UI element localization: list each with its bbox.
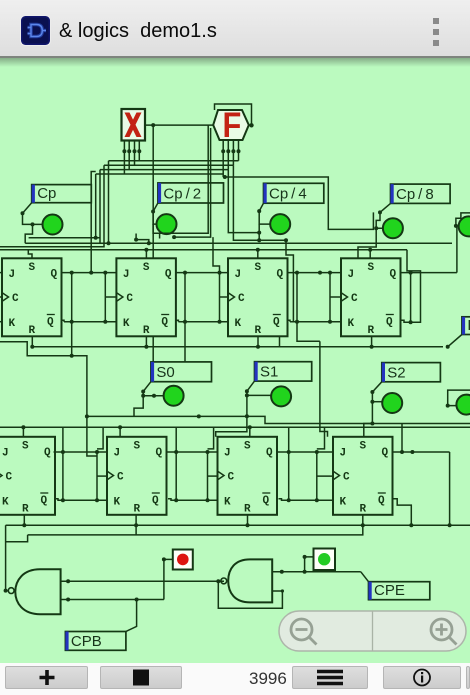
svg-text:J: J	[235, 269, 242, 281]
wire S bus row1	[0, 248, 407, 258]
svg-text:R: R	[255, 325, 262, 337]
bottom toolbar	[0, 663, 470, 695]
LED S1	[271, 386, 291, 406]
button: menu	[292, 666, 368, 689]
svg-text:J: J	[114, 447, 121, 459]
svg-text:J: J	[340, 447, 347, 459]
wire S1 terminal	[245, 381, 271, 416]
svg-text:Q: Q	[47, 316, 54, 328]
svg-text:Q: Q	[382, 447, 389, 459]
wire Qbar4 tie	[401, 250, 421, 324]
wire Q4 right	[401, 226, 457, 275]
app icon	[20, 15, 51, 46]
JK flip-flop FF3	[228, 258, 288, 337]
wire Cp2 terminal	[151, 203, 158, 224]
svg-text:Q: Q	[156, 447, 163, 459]
svg-text:S: S	[255, 262, 262, 274]
JK flip-flop FF7	[218, 437, 278, 516]
input label S1	[255, 362, 312, 381]
LED Cp/8	[383, 218, 403, 238]
wire Cp8 terminal	[374, 203, 390, 230]
wire X1 input stubs	[122, 141, 141, 175]
svg-text:R: R	[143, 325, 150, 337]
svg-text:J: J	[348, 269, 355, 281]
wire R bus row2 line1	[6, 523, 470, 527]
display X1 (decimal indicator)	[122, 109, 146, 141]
wire Qbar3 down	[297, 322, 320, 342]
svg-text:K: K	[123, 318, 130, 330]
svg-text:S: S	[143, 262, 150, 274]
svg-text:Q: Q	[51, 269, 58, 281]
input label CPE	[369, 582, 430, 600]
wire net to Cp4 terminal	[228, 170, 261, 235]
wire display bus line b3	[109, 160, 239, 162]
wire Qbar8	[393, 499, 414, 527]
LED Cp/4	[270, 214, 290, 234]
svg-text:S: S	[244, 440, 251, 452]
wire G1 lower input	[61, 598, 164, 602]
svg-text:Q: Q	[263, 495, 270, 507]
overflow menu button	[433, 18, 439, 51]
svg-text:R: R	[134, 503, 141, 515]
wire net line U	[25, 238, 452, 244]
wire net segs near Cp8	[358, 228, 376, 258]
indicator LED1 (red)	[173, 550, 193, 570]
wire Qbar1 down	[70, 273, 97, 456]
svg-text:J: J	[224, 447, 231, 459]
wire G2 upper input from CPE	[272, 570, 368, 582]
wire net segs near Cp4	[258, 224, 260, 240]
wire net segs near Cp2	[153, 125, 211, 239]
wire R bus row1	[30, 335, 462, 349]
wire FF1 input stubs	[0, 273, 2, 322]
wire S2 terminal	[370, 382, 382, 424]
svg-text:R: R	[360, 503, 367, 515]
JK flip-flop FF5	[0, 437, 55, 516]
wire left edge jog	[0, 342, 72, 356]
button: info	[383, 666, 461, 689]
svg-text:Q: Q	[152, 495, 159, 507]
wire G1 output riser	[4, 525, 28, 592]
input label S0	[151, 362, 212, 382]
svg-text:Q: Q	[266, 447, 273, 459]
wire FF7 S tap	[216, 414, 252, 437]
wire nub x136	[134, 234, 151, 246]
svg-text:J: J	[9, 269, 16, 281]
svg-text:Q: Q	[378, 495, 385, 507]
input label R (clipped)	[462, 317, 470, 335]
wire net to Cp8 terminal	[223, 175, 374, 229]
JK flip-flop FF1	[2, 258, 62, 337]
svg-text:C: C	[351, 293, 358, 305]
wire right LED row1 feed	[454, 213, 470, 228]
zoom control	[279, 611, 466, 651]
svg-text:J: J	[2, 447, 9, 459]
JK flip-flop FF2	[116, 258, 175, 337]
svg-text:S: S	[368, 262, 375, 274]
LED S2	[382, 393, 402, 413]
svg-text:C: C	[126, 293, 133, 305]
wire R bus row2 line2	[28, 515, 363, 535]
wire Cp4 terminal	[257, 203, 270, 224]
svg-text:CPB: CPB	[71, 633, 102, 650]
svg-text:Q: Q	[273, 316, 280, 328]
wire display bus line b0	[96, 173, 224, 175]
svg-text:K: K	[2, 496, 9, 508]
NAND gate G2 (left-facing)	[221, 559, 272, 602]
wire FF7 R stub	[247, 515, 249, 525]
wire bus left drop x104	[0, 165, 104, 247]
wire Q1 to J2 C2 K2	[62, 271, 117, 324]
svg-text:C: C	[238, 293, 245, 305]
wire drop x320 to row2	[319, 341, 321, 423]
wire FF6 R stub	[135, 515, 137, 535]
svg-text:S: S	[134, 440, 141, 452]
svg-text:R: R	[29, 325, 36, 337]
wire gap1 riser b0	[91, 172, 96, 273]
wire Qbar2 down	[184, 322, 186, 362]
svg-text:S0: S0	[156, 364, 174, 381]
wire FF5 S tap	[22, 427, 24, 437]
indicator LED2 (green)	[314, 549, 336, 571]
wire F1 input stubs	[221, 140, 240, 177]
wire Cp terminal	[21, 203, 44, 244]
svg-text:C: C	[117, 472, 124, 484]
svg-text:C: C	[228, 472, 235, 484]
wire Q2 to J3 C3 K3	[176, 271, 228, 324]
svg-text:Cp / 8: Cp / 8	[396, 186, 434, 203]
wire bus1 row2	[87, 414, 470, 425]
JK flip-flop FF6	[107, 437, 167, 516]
svg-text:Q: Q	[161, 316, 168, 328]
simulation counter	[249, 669, 285, 689]
button: add component	[5, 666, 88, 689]
input label Cp/8	[391, 184, 451, 203]
svg-text:K: K	[224, 496, 231, 508]
wire X1 out to F1	[145, 123, 214, 127]
svg-text:S: S	[360, 440, 367, 452]
wire S2 to FF8	[364, 424, 373, 437]
LED right row2 (clipped)	[456, 395, 470, 415]
wire G1 upper input	[61, 579, 224, 583]
input label CPB	[65, 632, 126, 651]
display F1 (7-segment) outer frame	[215, 104, 254, 128]
wire display bus line b2	[104, 164, 233, 166]
svg-text:J: J	[123, 269, 130, 281]
svg-text:K: K	[235, 318, 242, 330]
JK flip-flop FF4	[341, 258, 401, 337]
svg-text:S: S	[29, 262, 36, 274]
wire FF6 S tap	[119, 427, 121, 437]
wire FF5 R stub	[23, 515, 25, 525]
display F1 (7-segment) body	[213, 105, 249, 144]
LED S0	[164, 386, 184, 406]
wire enable net down to S0	[152, 125, 154, 362]
svg-text:S1: S1	[260, 364, 278, 381]
wire right LED row2 feed	[446, 390, 470, 408]
wire bus left drop x100	[99, 170, 101, 244]
svg-text:C: C	[343, 472, 350, 484]
svg-text:Cp / 2: Cp / 2	[163, 186, 201, 203]
svg-text:Q: Q	[277, 269, 284, 281]
svg-text:K: K	[9, 318, 16, 330]
svg-text:Q: Q	[165, 269, 172, 281]
svg-text:C: C	[6, 472, 13, 484]
title bar	[0, 0, 470, 58]
svg-text:Q: Q	[386, 316, 393, 328]
wire S0 terminal	[134, 382, 164, 417]
wire Q5 to J6 C6 K6	[54, 427, 108, 502]
input label Cp	[32, 185, 92, 203]
button sliver at right edge	[466, 666, 470, 689]
wire bus left drop x108	[107, 161, 111, 246]
wire green LED branch	[303, 555, 314, 574]
wire Q7 to J8 C8 K8	[277, 427, 333, 502]
svg-text:S2: S2	[387, 364, 405, 381]
wire Q3 to J4 C4 K4	[288, 271, 342, 324]
svg-text:S: S	[22, 440, 29, 452]
input label Cp/2	[158, 183, 224, 203]
svg-text:Cp / 4: Cp / 4	[269, 186, 307, 203]
input label S2	[382, 363, 441, 382]
wire FF8 S tap	[320, 424, 328, 437]
svg-text:K: K	[340, 496, 347, 508]
svg-text:K: K	[348, 318, 355, 330]
svg-text:R: R	[368, 325, 375, 337]
JK flip-flop FF8	[333, 437, 393, 516]
button: stop	[100, 666, 182, 689]
svg-text:R: R	[22, 503, 29, 515]
wire bus left drop x96	[94, 174, 98, 240]
wire CPB terminal	[126, 600, 137, 632]
svg-text:CPE: CPE	[374, 582, 405, 599]
wire Q6 to J7 C7 K7	[167, 427, 218, 502]
wire display bus line b1	[100, 169, 228, 171]
wire G2 feedback	[218, 581, 284, 608]
svg-text:Cp: Cp	[37, 185, 56, 202]
NAND gate G1 (left-facing)	[8, 569, 60, 614]
wire net to K4	[233, 165, 293, 322]
LED Cp/2	[157, 214, 177, 234]
svg-text:K: K	[114, 496, 121, 508]
svg-text:Q: Q	[390, 269, 397, 281]
svg-text:Q: Q	[44, 447, 51, 459]
wire Q8 right	[393, 424, 452, 528]
svg-text:C: C	[12, 293, 19, 305]
svg-text:R: R	[244, 503, 251, 515]
input label Cp/4	[264, 183, 324, 203]
LED Cp	[43, 215, 63, 235]
wire gap2 drop	[213, 237, 220, 273]
svg-text:F: F	[223, 105, 242, 144]
wire bus2 row2	[0, 425, 470, 429]
wire red LED feed	[162, 557, 173, 599]
svg-text:Q: Q	[41, 495, 48, 507]
LED right row1 (clipped)	[459, 216, 470, 236]
